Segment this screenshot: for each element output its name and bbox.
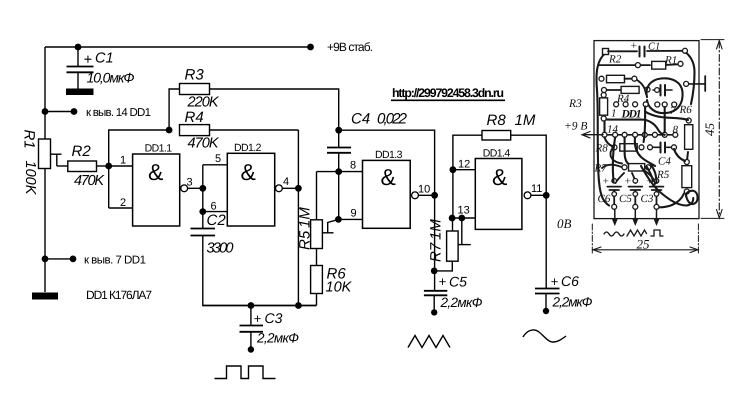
gate DD1.3 xyxy=(363,149,411,228)
PCB pins 14-8 row pads with bus xyxy=(601,132,678,137)
svg-text:2,2мкФ: 2,2мкФ xyxy=(552,295,593,310)
svg-text:C5: C5 xyxy=(449,274,467,290)
capacitor C3 xyxy=(240,306,300,353)
svg-text:5: 5 xyxy=(215,153,221,165)
sine wave symbol xyxy=(523,330,566,342)
svg-text:R4: R4 xyxy=(185,109,204,126)
PCB resistor R7 body xyxy=(602,164,651,171)
resistor R7 (potentiometer) xyxy=(428,218,471,271)
svg-text:2,2мкФ: 2,2мкФ xyxy=(256,331,299,346)
PCB label +9V xyxy=(564,121,587,133)
resistor R2 xyxy=(57,143,109,189)
resistor R8 xyxy=(453,112,546,195)
svg-text:&: & xyxy=(241,159,256,185)
capacitor C5 xyxy=(424,274,483,316)
PCB pad R1 right xyxy=(678,61,683,66)
svg-text:&: & xyxy=(492,164,507,190)
PCB label R5 xyxy=(656,169,670,181)
svg-text:+: + xyxy=(630,40,637,52)
PCB resistor R1 body xyxy=(652,61,666,69)
node pin 12 xyxy=(450,166,457,173)
wire pin 5 xyxy=(203,164,228,166)
wire pin 13 xyxy=(452,217,475,219)
PCB dimension 45 xyxy=(701,40,724,219)
wire vertical pin1-pin2 and up to R3/R4 xyxy=(109,130,169,208)
svg-text:10,0мкФ: 10,0мкФ xyxy=(87,70,135,86)
PCB mini sine symbol xyxy=(604,232,624,236)
label url xyxy=(391,86,505,100)
svg-text:R5: R5 xyxy=(297,230,314,250)
node C3 on rail xyxy=(248,302,255,309)
PCB resistor R3 vertical body xyxy=(600,93,608,122)
svg-text:2: 2 xyxy=(120,197,126,209)
wire pin2 xyxy=(109,207,133,209)
svg-text:+: + xyxy=(254,311,262,326)
PCB trace to C1 xyxy=(608,50,637,52)
node k vyv 7 xyxy=(42,256,49,263)
svg-text:R3: R3 xyxy=(568,98,582,110)
capacitor C4 xyxy=(327,111,408,172)
PCB capacitor C1 xyxy=(630,40,660,57)
node R7 bottom junction xyxy=(431,268,438,275)
wire left vertical bus xyxy=(44,47,46,292)
wire pin 8 line xyxy=(317,171,363,173)
svg-text:1: 1 xyxy=(611,108,617,120)
svg-text:11: 11 xyxy=(531,183,542,195)
node pin 8 / C4 xyxy=(335,168,342,175)
svg-text:+: + xyxy=(551,274,559,289)
PCB label 1 DD1 xyxy=(611,108,642,121)
gate DD1.2 xyxy=(227,142,274,226)
svg-text:1: 1 xyxy=(120,155,126,167)
wire +9V top rail xyxy=(45,46,311,48)
svg-text:+9 В: +9 В xyxy=(564,121,587,133)
output pin 4 circle xyxy=(276,185,283,192)
node output 11 xyxy=(543,192,550,199)
svg-text:9: 9 xyxy=(351,208,357,220)
PCB trace right side down xyxy=(687,53,695,104)
wire pin 6 xyxy=(203,211,228,213)
svg-text:R8: R8 xyxy=(487,112,507,129)
svg-text:C2: C2 xyxy=(207,212,227,229)
node R3/R4 left junction xyxy=(166,127,173,134)
svg-text:8: 8 xyxy=(673,124,679,136)
PCB label 7 xyxy=(670,105,676,117)
svg-text:http://299792458.3dn.ru: http://299792458.3dn.ru xyxy=(392,86,504,100)
label DD1 K176LA7 xyxy=(86,288,152,302)
svg-text:10K: 10K xyxy=(326,280,353,296)
svg-text:+9В стаб.: +9В стаб. xyxy=(327,40,373,54)
PCB label R3 outside xyxy=(568,98,582,110)
gate DD1.4 xyxy=(475,148,522,230)
svg-text:100K: 100K xyxy=(22,161,38,196)
svg-text:2,2мкФ: 2,2мкФ xyxy=(440,295,483,310)
resistor R5 (potentiometer) xyxy=(297,172,339,250)
PCB capacitor C6 xyxy=(598,176,622,210)
svg-text:14: 14 xyxy=(607,124,619,136)
node pin 6 / C2 xyxy=(199,208,206,215)
svg-text:+: + xyxy=(602,176,609,188)
wire output 11 xyxy=(531,194,546,196)
node +9V terminal xyxy=(307,44,314,51)
label pin 1 xyxy=(120,155,126,167)
wire output 4 xyxy=(282,187,298,189)
label pin 10 xyxy=(418,184,430,196)
resistor R3 xyxy=(169,67,339,131)
svg-text:DD1 К176ЛА7: DD1 К176ЛА7 xyxy=(86,288,152,302)
svg-text:R2: R2 xyxy=(608,54,622,66)
PCB capacitor C5 xyxy=(619,176,642,210)
svg-text:+: + xyxy=(624,176,631,188)
svg-text:к выв. 7 DD1: к выв. 7 DD1 xyxy=(84,255,146,267)
svg-text:13: 13 xyxy=(458,205,470,217)
svg-text:C4: C4 xyxy=(658,156,671,168)
node pin 9 xyxy=(335,216,342,223)
svg-text:0,022: 0,022 xyxy=(377,111,408,128)
svg-text:1M: 1M xyxy=(297,207,314,228)
svg-text:8: 8 xyxy=(350,160,356,172)
node terminal pin14 xyxy=(71,108,78,115)
node output 4 xyxy=(295,185,302,192)
label +9V stab xyxy=(327,40,373,54)
wire pins 8-9 tie xyxy=(338,172,340,220)
wire vertical node3 to pin5 corner and down to C2 xyxy=(202,165,204,228)
svg-text:к выв. 14 DD1: к выв. 14 DD1 xyxy=(86,107,151,119)
svg-text:С3: С3 xyxy=(641,193,654,205)
label 0V handwritten xyxy=(557,216,572,231)
capacitor C2 xyxy=(191,212,317,306)
PCB label R8 xyxy=(595,143,609,155)
svg-text:10: 10 xyxy=(418,184,430,196)
wire pin 9 xyxy=(338,218,362,220)
PCB mini square symbol xyxy=(651,230,663,236)
svg-text:R6: R6 xyxy=(679,104,693,116)
resistor R6 xyxy=(311,249,353,306)
PCB label R6 xyxy=(679,104,693,116)
capacitor C6 xyxy=(535,273,593,314)
PCB resistor R8 body xyxy=(610,144,644,164)
PCB dimension 25 xyxy=(592,224,698,255)
label pin 11 xyxy=(531,183,542,195)
wire pin 12 xyxy=(453,169,475,171)
label k vyv 14 DD1 xyxy=(86,107,151,119)
svg-text:C3: C3 xyxy=(265,310,283,326)
triangle wave symbol xyxy=(408,336,450,348)
svg-text:3: 3 xyxy=(187,177,193,189)
wire bottom rail xyxy=(203,305,317,307)
PCB capacitor inside loop xyxy=(653,85,672,96)
node terminal pin7 xyxy=(70,256,77,263)
svg-text:1M: 1M xyxy=(515,112,536,129)
PCB label 8 xyxy=(673,124,679,136)
svg-text:DD1.3: DD1.3 xyxy=(375,149,403,161)
wire node10 down to C5 xyxy=(434,195,436,290)
svg-text:45: 45 xyxy=(702,123,717,137)
PCB trace R5 bottom sweep xyxy=(660,194,685,208)
PCB pad top right xyxy=(683,48,688,53)
svg-text:R7: R7 xyxy=(594,163,608,175)
output pin 11 circle xyxy=(524,192,531,199)
PCB resistor R5 vertical body xyxy=(682,160,692,195)
svg-text:0В: 0В xyxy=(557,216,572,231)
svg-text:7: 7 xyxy=(670,105,676,117)
wire vertical R4 feedback down to bottom rail xyxy=(297,130,299,306)
wire vertical pin12 to pin13 xyxy=(452,170,454,218)
PCB label R2 xyxy=(608,54,622,66)
node k vyv 14 xyxy=(42,108,49,115)
svg-text:С5: С5 xyxy=(619,193,632,205)
label pin 3 xyxy=(187,177,193,189)
label pin 9 xyxy=(351,208,357,220)
gate DD1.1 xyxy=(133,143,180,227)
svg-text:R3: R3 xyxy=(185,67,205,84)
svg-text:R7: R7 xyxy=(428,242,445,262)
label pin 2 xyxy=(120,197,126,209)
svg-text:25: 25 xyxy=(637,237,651,252)
wire C4 node to DD1.3 output xyxy=(339,130,435,195)
wire output 3 xyxy=(188,187,203,189)
wire output 10 xyxy=(418,194,434,196)
PCB misc curvy traces xyxy=(605,107,698,206)
svg-text:470K: 470K xyxy=(74,173,105,189)
wire tap to pin 7 xyxy=(45,258,73,260)
ground bar left xyxy=(32,293,58,300)
PCB trace C1 to top-right pad xyxy=(647,50,682,52)
svg-text:C6: C6 xyxy=(561,273,579,289)
wire pin1 xyxy=(109,165,133,167)
svg-text:4: 4 xyxy=(283,176,289,188)
node C4 top junction xyxy=(335,127,342,134)
svg-text:C1: C1 xyxy=(95,51,114,67)
PCB traces into caps xyxy=(616,171,656,184)
label pin 6 xyxy=(211,201,217,213)
resistor R1 (potentiometer) xyxy=(21,130,62,196)
svg-text:3300: 3300 xyxy=(207,241,234,257)
PCB resistor R2 body row xyxy=(599,75,646,94)
PCB label R7 xyxy=(594,163,608,175)
PCB label R1 xyxy=(664,55,677,67)
PCB resistor R6 vertical body xyxy=(685,118,693,166)
PCB pad input top-left xyxy=(603,49,609,55)
PCB +9V arrow xyxy=(582,132,603,138)
svg-text:&: & xyxy=(381,164,396,190)
node pin 13 left xyxy=(449,215,456,222)
svg-text:R2: R2 xyxy=(72,143,92,160)
node output 3 xyxy=(199,185,206,192)
PCB pins 1-7 row pads xyxy=(614,102,677,107)
PCB label 14 xyxy=(607,124,619,136)
label pin 5 xyxy=(215,153,221,165)
svg-text:R1: R1 xyxy=(21,130,38,149)
square wave symbol xyxy=(215,366,276,379)
PCB output stub right xyxy=(684,76,706,91)
svg-text:R8: R8 xyxy=(595,143,609,155)
svg-text:+: + xyxy=(439,274,447,289)
wire node11 down to C6 xyxy=(545,195,547,288)
PCB resistor R4 body row xyxy=(602,86,651,105)
node bottom rail at x298 xyxy=(295,302,302,309)
label pin 8 xyxy=(350,160,356,172)
svg-text:&: & xyxy=(148,159,163,185)
PCB left edge trace xyxy=(596,53,609,206)
node R2 / pin1 junction xyxy=(105,163,112,170)
svg-text:DD1.4: DD1.4 xyxy=(483,148,511,160)
resistor R4 xyxy=(180,109,299,152)
PCB output arrows down xyxy=(612,210,660,226)
PCB pad R1 left xyxy=(635,63,640,68)
wire tap to pin 14 xyxy=(45,111,74,113)
PCB big loop trace xyxy=(646,78,682,113)
PCB capacitor C3 xyxy=(641,176,664,210)
node pin 13 wiper xyxy=(458,215,465,222)
label pin 4 xyxy=(283,176,289,188)
PCB trace row R1 xyxy=(599,63,680,66)
label pin 12 xyxy=(458,159,470,171)
svg-text:1M: 1M xyxy=(428,219,445,240)
svg-text:DD1.1: DD1.1 xyxy=(145,143,173,155)
output pin 3 circle xyxy=(181,185,188,192)
svg-text:470K: 470K xyxy=(188,136,220,152)
node output 10 xyxy=(431,192,438,199)
PCB capacitor C4 xyxy=(648,143,677,168)
svg-text:С6: С6 xyxy=(598,193,611,205)
node top rail / C1 xyxy=(75,44,82,51)
svg-text:C4: C4 xyxy=(351,111,370,128)
svg-text:DD1.2: DD1.2 xyxy=(234,142,262,154)
svg-text:+: + xyxy=(84,52,92,68)
svg-text:12: 12 xyxy=(458,159,470,171)
label k vyv 7 DD1 xyxy=(84,255,146,267)
svg-text:6: 6 xyxy=(211,201,217,213)
PCB mini triangle symbol xyxy=(627,230,647,236)
PCB board outline xyxy=(594,41,699,219)
output pin 10 circle xyxy=(412,192,419,199)
label pin 13 xyxy=(458,205,470,217)
capacitor C1 xyxy=(66,47,135,95)
